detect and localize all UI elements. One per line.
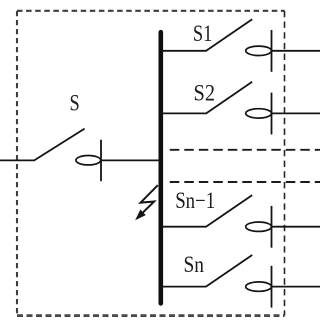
wire: switch S to busbar [101,159,161,161]
wire: S1 feeder to edge [272,50,320,52]
switch Sn-1 blade [206,195,252,227]
switch Sn-1 contact bar [271,206,273,248]
wire: busbar to switch Sn [161,286,206,288]
switch S blade [34,129,85,161]
dashed continuation line upper [170,149,320,151]
dashed enclosure bottom edge [17,314,285,317]
switch Sn-1 contact ellipse [246,222,272,231]
dashed enclosure top edge [17,10,285,12]
svg-text:S2: S2 [194,81,216,106]
switch S1 contact ellipse [246,46,272,55]
switch S contact bar [100,140,102,182]
switch S2 contact ellipse [246,109,272,118]
switch S2 blade [206,82,252,114]
wire: busbar to switch Sn-1 [161,226,206,228]
switch Sn blade [206,255,252,287]
switch S2 contact bar [271,93,273,135]
svg-text:Sn−1: Sn−1 [175,188,215,213]
wire: S2 feeder to edge [272,112,320,114]
wire: busbar to switch S1 [161,50,206,52]
switch S contact ellipse [76,156,101,165]
switch S1 contact bar [271,30,273,72]
svg-text:Sn: Sn [184,252,205,277]
dashed enclosure left edge [16,11,18,316]
fault arrow at busbar [136,185,158,219]
wire: incoming line to switch S [0,159,35,161]
wire: Sn-1 feeder to edge [272,226,320,228]
dashed enclosure right edge [284,11,286,316]
switch S1 blade [206,19,252,51]
dashed continuation line lower [170,181,320,183]
switch Sn contact bar [271,266,273,308]
wire: Sn feeder to edge [272,286,320,288]
svg-text:S1: S1 [193,21,213,46]
switch Sn contact ellipse [246,282,272,291]
wire: busbar to switch S2 [161,112,206,114]
svg-text:S: S [70,91,80,116]
busbar [159,32,164,303]
